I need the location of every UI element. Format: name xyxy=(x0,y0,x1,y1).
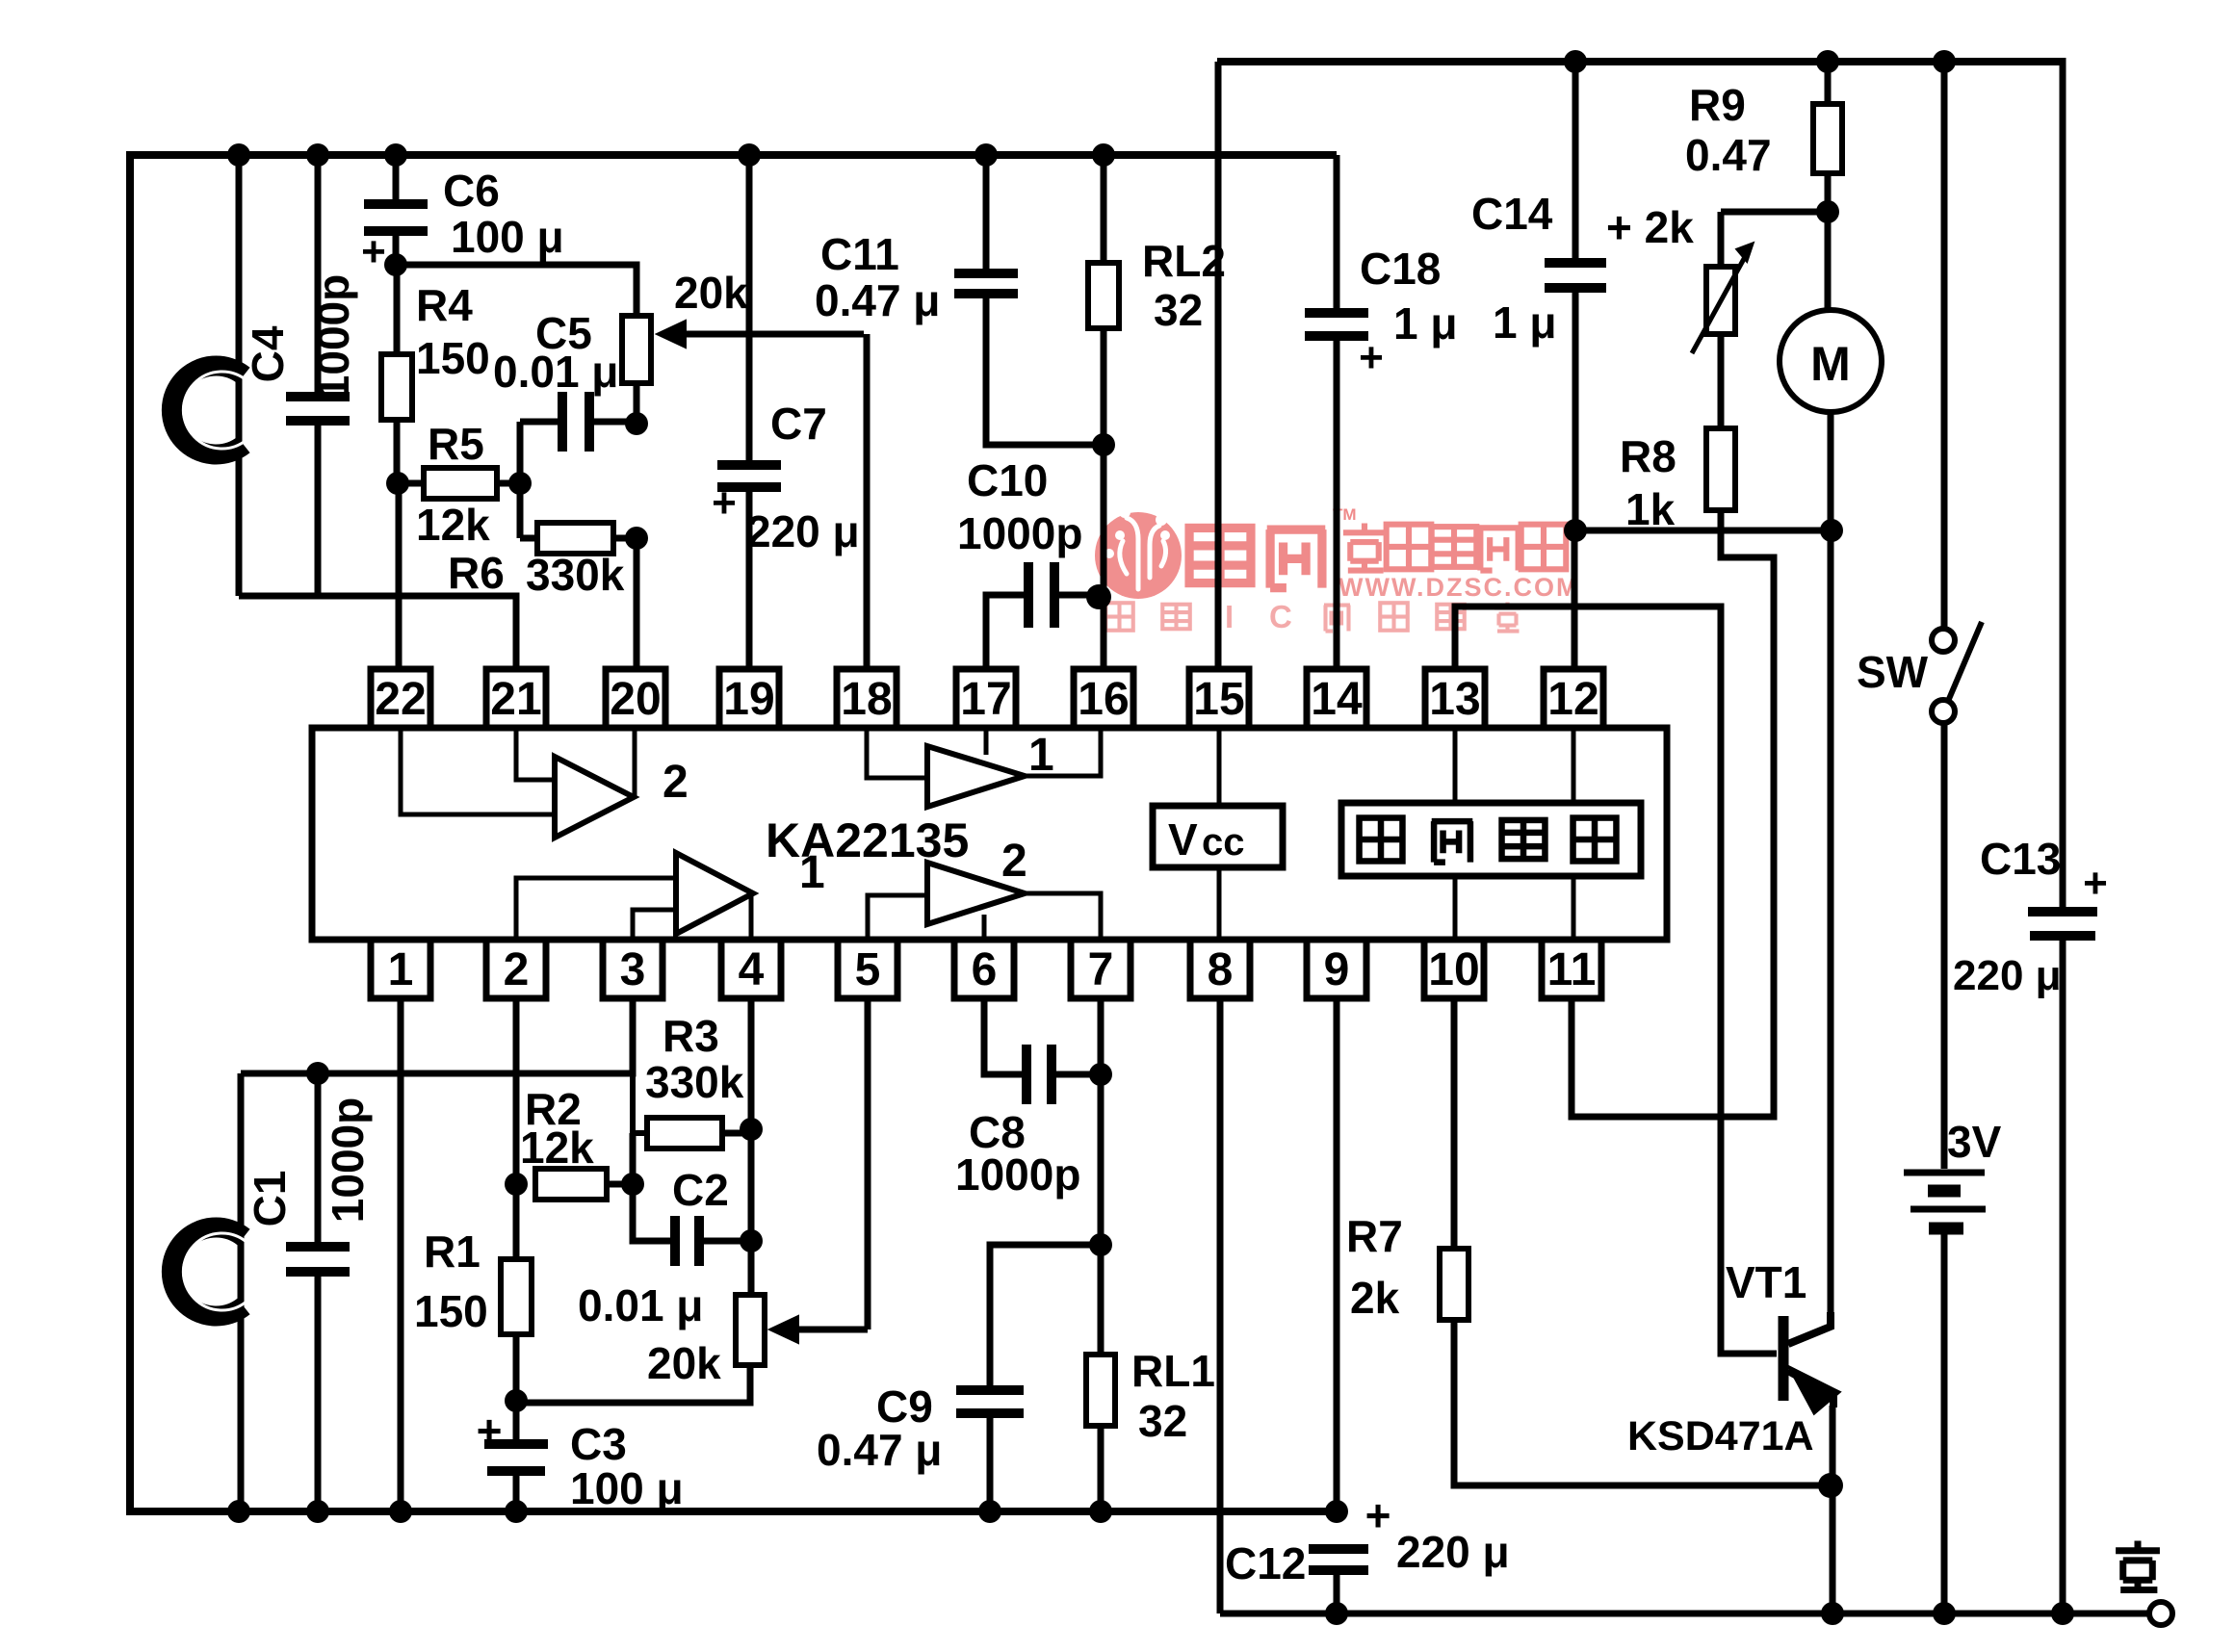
ground terminal xyxy=(2149,1602,2172,1625)
pin 22 box xyxy=(371,669,430,728)
node C10 right junction xyxy=(1086,584,1111,609)
pin 19 box xyxy=(719,669,779,728)
svg-text:+ 2k: + 2k xyxy=(1606,202,1694,252)
wire C6 to pot20k top xyxy=(396,265,637,316)
wire pin2 down xyxy=(513,998,520,1184)
wire pin3 link xyxy=(241,998,633,1073)
wire pin4 down xyxy=(748,998,755,1295)
svg-text:C: C xyxy=(1269,599,1292,634)
svg-text:cc: cc xyxy=(1202,821,1245,864)
svg-text:C7: C7 xyxy=(770,399,827,449)
wire ground rail xyxy=(126,1508,1337,1515)
node upper rail junction R9 xyxy=(1816,50,1839,73)
svg-text:220 μ: 220 μ xyxy=(1953,952,2062,999)
wire VT1 emitter down xyxy=(1830,1406,1836,1613)
svg-text:R1: R1 xyxy=(424,1226,481,1277)
block Vcc lines xyxy=(1217,728,1222,806)
motor M1 xyxy=(1780,310,1882,412)
label ground xyxy=(2116,1541,2160,1590)
wire pot20k to pin18 xyxy=(864,334,871,669)
svg-text:9: 9 xyxy=(1324,944,1350,995)
pin 8 box xyxy=(1190,940,1250,998)
pin 2 box xyxy=(486,940,546,998)
svg-text:C2: C2 xyxy=(672,1165,729,1215)
svg-text:32: 32 xyxy=(1138,1396,1187,1446)
node top rail junction C7 xyxy=(738,143,761,167)
op-amp A2 (record) inputs xyxy=(516,728,555,780)
pin 15 box xyxy=(1189,669,1249,728)
wire pot lower bottom xyxy=(516,1365,750,1403)
node RL1 ground junction xyxy=(1089,1500,1112,1523)
svg-text:+: + xyxy=(712,479,737,527)
svg-text:20: 20 xyxy=(610,674,661,725)
svg-text:12k: 12k xyxy=(520,1123,594,1173)
op-amp A2 (record) xyxy=(555,757,634,838)
switch SW line top xyxy=(1941,62,1948,629)
pin 9 box xyxy=(1307,940,1366,998)
svg-text:1k: 1k xyxy=(1625,484,1676,534)
node C6-R4 junction xyxy=(384,253,407,276)
svg-text:R3: R3 xyxy=(663,1011,719,1061)
potentiometer 20k lower xyxy=(736,1295,765,1365)
svg-text:2: 2 xyxy=(663,757,689,808)
pin 18 box xyxy=(837,669,897,728)
svg-text:M: M xyxy=(1810,337,1851,391)
svg-text:I: I xyxy=(1225,599,1234,634)
svg-text:11: 11 xyxy=(1547,944,1597,995)
svg-text:+: + xyxy=(2083,860,2108,907)
node R5 left junction xyxy=(386,472,409,495)
wire pot2k top to R9 node xyxy=(1721,209,1828,216)
node RL2-C11 junction xyxy=(1092,433,1115,456)
wire pot20k bottom to C5R xyxy=(634,383,640,424)
svg-text:1 μ: 1 μ xyxy=(1493,297,1557,348)
pin 17 box xyxy=(956,669,1016,728)
wire pin13 to VT1 base xyxy=(1455,607,1777,1354)
node R2 right junction xyxy=(621,1173,644,1196)
capacitor C5 xyxy=(558,392,567,452)
svg-text:32: 32 xyxy=(1154,285,1203,335)
wire R1 bottom xyxy=(513,1334,520,1401)
svg-text:0.47 μ: 0.47 μ xyxy=(815,275,940,325)
wire pin9 down xyxy=(1334,998,1340,1511)
node C14 rail junction xyxy=(1564,519,1587,542)
svg-text:22: 22 xyxy=(375,674,426,725)
svg-text:17: 17 xyxy=(960,674,1011,725)
potentiometer 2k xyxy=(1718,212,1725,267)
svg-text:C18: C18 xyxy=(1360,244,1441,294)
wire R8 to pin11 xyxy=(1572,510,1774,1117)
resistor R2 xyxy=(535,1169,607,1200)
capacitor C3 xyxy=(513,1401,520,1440)
node top rail junction C6 xyxy=(384,143,407,167)
op-amp A2b (bottom) xyxy=(927,863,1025,924)
wire pin8 down xyxy=(1217,998,1224,1613)
svg-text:150: 150 xyxy=(414,1286,488,1336)
node R2 left junction xyxy=(505,1173,528,1196)
svg-text:2: 2 xyxy=(1001,836,1027,887)
transistor VT1 xyxy=(1779,1316,1789,1401)
block motor-drive xyxy=(1341,803,1641,876)
wire sensor line left xyxy=(236,155,243,596)
node upper rail junction C14 xyxy=(1564,50,1587,73)
svg-text:R6: R6 xyxy=(448,548,505,598)
svg-text:12: 12 xyxy=(1547,674,1598,725)
svg-text:KSD471A: KSD471A xyxy=(1627,1413,1814,1459)
svg-text:+: + xyxy=(477,1406,503,1456)
svg-text:330k: 330k xyxy=(526,550,625,600)
node R1-C3 junction xyxy=(505,1389,528,1412)
pin 16 box xyxy=(1074,669,1133,728)
svg-text:19: 19 xyxy=(723,674,774,725)
svg-text:12k: 12k xyxy=(416,500,490,550)
node motor rail junction xyxy=(1820,519,1843,542)
svg-text:3V: 3V xyxy=(1947,1117,2002,1167)
svg-text:100 μ: 100 μ xyxy=(451,212,564,262)
svg-text:8: 8 xyxy=(1208,944,1234,995)
node R5 right junction xyxy=(508,472,532,495)
svg-text:150: 150 xyxy=(416,333,490,383)
pin 1 box xyxy=(371,940,430,998)
node C1 ground junction xyxy=(306,1500,329,1523)
pin 5 box xyxy=(838,940,897,998)
resistor R4 xyxy=(394,265,401,354)
node C2 right junction xyxy=(740,1229,763,1252)
svg-text:5: 5 xyxy=(855,944,881,995)
resistor R5 xyxy=(424,468,497,499)
svg-text:C10: C10 xyxy=(967,455,1048,505)
capacitor C11 xyxy=(983,155,990,270)
svg-text:330k: 330k xyxy=(645,1057,744,1107)
capacitor C8 xyxy=(984,998,1023,1074)
capacitor C9 xyxy=(990,1245,1101,1386)
wire pin1 to ground xyxy=(398,998,404,1511)
coil L1 (hand-drawn crescent) xyxy=(171,1227,244,1316)
svg-text:C12: C12 xyxy=(1225,1538,1306,1588)
wire C5 left down xyxy=(517,422,524,538)
node top rail junction C11 xyxy=(975,143,998,167)
op-amp A1 (top) xyxy=(927,746,1025,807)
pin 7 box xyxy=(1071,940,1130,998)
svg-text:C11: C11 xyxy=(820,229,899,279)
pin 4 box xyxy=(721,940,781,998)
op-amp A2b (bottom) inputs xyxy=(868,895,927,940)
node C5 right junction xyxy=(625,412,648,435)
pin 11 box xyxy=(1542,940,1601,998)
svg-text:1000p: 1000p xyxy=(957,508,1082,558)
svg-text:R4: R4 xyxy=(416,280,473,330)
svg-text:R8: R8 xyxy=(1620,431,1676,481)
resistor R3 xyxy=(647,1118,722,1149)
wire bottom ground rail xyxy=(1220,1611,2151,1617)
svg-text:KA22135: KA22135 xyxy=(766,813,969,867)
wire R4 to pin22 xyxy=(396,483,403,669)
op-amp A1 (top) inputs xyxy=(867,728,927,778)
node C8 right junction xyxy=(1089,1063,1112,1086)
svg-text:SW: SW xyxy=(1857,647,1929,697)
svg-text:7: 7 xyxy=(1088,944,1114,995)
node C12 ground junction xyxy=(1325,1602,1348,1625)
svg-text:6: 6 xyxy=(972,944,998,995)
node upper rail junction SW xyxy=(1933,50,1956,73)
resistor R7 xyxy=(1451,998,1458,1249)
node battery-ground junction xyxy=(1933,1602,1956,1625)
capacitor C12 xyxy=(1309,1544,1368,1554)
resistor R6 xyxy=(537,523,613,554)
svg-text:+: + xyxy=(1365,1490,1391,1540)
svg-text:C4: C4 xyxy=(243,325,293,382)
svg-text:C3: C3 xyxy=(570,1419,627,1469)
svg-text:VT1: VT1 xyxy=(1726,1257,1806,1307)
node C12 top junction xyxy=(1325,1500,1348,1523)
node pin1 ground junction xyxy=(389,1500,412,1523)
svg-text:1 μ: 1 μ xyxy=(1393,298,1458,348)
svg-text:TM: TM xyxy=(1333,505,1357,524)
resistor R9 xyxy=(1825,62,1832,104)
capacitor C2 xyxy=(633,1184,672,1241)
wire R9 to motor xyxy=(1825,212,1832,310)
wire SW to battery xyxy=(1941,723,1948,1169)
svg-text:1: 1 xyxy=(1028,730,1054,781)
svg-text:R9: R9 xyxy=(1689,80,1746,130)
svg-text:1: 1 xyxy=(388,944,414,995)
svg-text:C14: C14 xyxy=(1471,189,1553,239)
wire top power rail xyxy=(127,151,1337,159)
node link-C1 junction xyxy=(306,1062,329,1085)
wire pin15 from rail xyxy=(1215,62,1222,669)
svg-text:RL2: RL2 xyxy=(1142,236,1226,286)
pin 20 box xyxy=(606,669,665,728)
ic U1 KA22135 body xyxy=(312,728,1667,940)
potentiometer 20k upper xyxy=(622,316,651,383)
svg-text:3: 3 xyxy=(620,944,646,995)
wire pin3 chain down xyxy=(633,1073,647,1133)
capacitor C6 xyxy=(393,155,400,200)
capacitor C13 xyxy=(2028,907,2097,916)
capacitor C7 xyxy=(746,155,753,461)
capacitor C18 xyxy=(1334,155,1340,309)
resistor RL2 load xyxy=(1101,155,1107,263)
wire upper-right power rail xyxy=(1217,58,2063,65)
pin 21 box xyxy=(486,669,546,728)
pin 6 box xyxy=(954,940,1014,998)
node C3 ground junction xyxy=(505,1500,528,1523)
svg-text:220 μ: 220 μ xyxy=(1396,1527,1510,1577)
wire C14-motor rail xyxy=(1575,528,1831,534)
op-amp A1b (bottom) xyxy=(676,853,753,934)
svg-text:0.47 μ: 0.47 μ xyxy=(817,1425,942,1475)
capacitor C4 xyxy=(315,155,322,393)
pin 12 box xyxy=(1544,669,1603,728)
svg-text:20k: 20k xyxy=(647,1338,721,1388)
wire right border lower (C13 to ground) xyxy=(2060,938,2066,1613)
svg-text:2k: 2k xyxy=(1350,1273,1400,1323)
battery B1 3V xyxy=(1904,1170,1985,1176)
node C9 link junction xyxy=(1089,1233,1112,1256)
svg-text:220 μ: 220 μ xyxy=(746,506,860,556)
watermark dzsc logo xyxy=(1095,505,1579,634)
svg-text:0.01 μ: 0.01 μ xyxy=(578,1280,703,1330)
node top rail junction RL2 xyxy=(1092,143,1115,167)
node sensor2 ground junction xyxy=(227,1500,250,1523)
capacitor C1 xyxy=(315,1073,322,1243)
node C13-ground junction xyxy=(2051,1602,2074,1625)
svg-text:R7: R7 xyxy=(1346,1211,1403,1261)
svg-text:16: 16 xyxy=(1078,674,1129,725)
op-amp A1b (bottom) inputs xyxy=(516,878,676,940)
svg-text:1000p: 1000p xyxy=(955,1149,1080,1200)
svg-text:1: 1 xyxy=(799,847,825,898)
wire right border upper (to C13) xyxy=(2060,58,2066,908)
pin 10 box xyxy=(1424,940,1484,998)
svg-text:RL1: RL1 xyxy=(1131,1346,1215,1396)
pin 3 box xyxy=(603,940,663,998)
block Vcc xyxy=(1153,806,1283,867)
node top rail junction C4 xyxy=(306,143,329,167)
svg-text:+: + xyxy=(1359,334,1384,381)
coil L2 (hand-drawn crescent) xyxy=(171,366,244,454)
svg-text:+: + xyxy=(361,228,386,275)
switch SW xyxy=(1932,629,1955,652)
resistor RL1 load xyxy=(1086,1355,1115,1426)
svg-text:C1: C1 xyxy=(245,1171,295,1227)
capacitor C14 xyxy=(1572,62,1579,259)
svg-text:WWW.DZSC.COM: WWW.DZSC.COM xyxy=(1338,573,1579,602)
svg-text:0.01 μ: 0.01 μ xyxy=(493,347,618,397)
node R6 right junction xyxy=(625,527,648,550)
node R3 right junction xyxy=(740,1118,763,1141)
svg-text:13: 13 xyxy=(1429,674,1480,725)
wire pin12 to rail xyxy=(1572,530,1578,669)
node top rail junction C4-line xyxy=(227,143,250,167)
wire pin7 down xyxy=(1098,998,1105,1355)
svg-text:4: 4 xyxy=(739,944,765,995)
resistor R1 xyxy=(513,1184,520,1259)
svg-text:0.47: 0.47 xyxy=(1685,130,1772,180)
svg-text:2: 2 xyxy=(504,944,530,995)
svg-text:C13: C13 xyxy=(1980,834,2061,884)
node R9 bottom junction xyxy=(1816,200,1839,223)
wire motor to VT1 collector xyxy=(1828,412,1834,530)
svg-text:20k: 20k xyxy=(674,268,748,318)
wire left border xyxy=(126,151,134,1515)
svg-text:10: 10 xyxy=(1428,944,1479,995)
svg-text:R5: R5 xyxy=(428,419,484,469)
svg-text:14: 14 xyxy=(1311,674,1363,725)
node C9 ground junction xyxy=(978,1500,1001,1523)
svg-text:21: 21 xyxy=(490,674,541,725)
svg-text:V: V xyxy=(1168,814,1198,865)
pin 13 box xyxy=(1425,669,1485,728)
wire R6 to pin20 xyxy=(634,538,640,669)
block motor-drive lines xyxy=(1453,728,1458,803)
svg-text:1000p: 1000p xyxy=(323,1097,373,1223)
capacitor C10 xyxy=(1024,562,1033,628)
wire pin21 link xyxy=(239,596,516,669)
node VT1 emitter ground junction xyxy=(1821,1602,1844,1625)
svg-text:100 μ: 100 μ xyxy=(570,1463,684,1513)
svg-text:C6: C6 xyxy=(443,166,500,216)
svg-text:18: 18 xyxy=(841,674,892,725)
node R7 emitter junction xyxy=(1818,1473,1843,1498)
svg-text:1000p: 1000p xyxy=(308,274,358,400)
resistor R8 xyxy=(1718,334,1725,428)
wire pin5 down xyxy=(865,998,871,1329)
pin 14 box xyxy=(1307,669,1366,728)
svg-text:15: 15 xyxy=(1193,674,1244,725)
